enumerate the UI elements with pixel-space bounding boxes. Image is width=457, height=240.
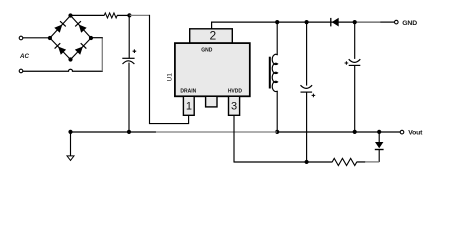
node D6 top (377, 130, 381, 134)
svg-text:1: 1 (186, 101, 192, 113)
wire mid rail centre (grey) (156, 131, 277, 133)
pin 3 box (229, 96, 240, 115)
wire bridge right node to loop (91, 37, 103, 39)
capacitor C3 top lead (306, 22, 308, 86)
label Vout (408, 130, 423, 137)
terminal Vout (400, 130, 404, 134)
capacitor C4 bottom lead (354, 65, 356, 132)
node C4 top (353, 20, 357, 24)
node bridge right (AC) (89, 36, 93, 40)
label GND (U1) (201, 47, 213, 53)
bridge diode D3 (bottom-left edge) (50, 38, 71, 60)
wire bridge+ to R1 (71, 14, 105, 16)
wire bottom rail left (234, 161, 333, 163)
label GND (402, 20, 417, 27)
pin 3 label (231, 101, 237, 113)
wire pin3 down (233, 115, 235, 162)
svg-text:2: 2 (210, 29, 217, 43)
wire top rail grey segment (356, 21, 380, 23)
label HVDD (U1) (228, 89, 243, 95)
node C1 bottom (127, 130, 131, 134)
terminal AC line 2 (19, 69, 23, 73)
capacitor C4 plus (345, 61, 349, 65)
svg-text:GND: GND (201, 47, 213, 53)
inductor core bar (269, 57, 271, 89)
node bridge bottom (-) (68, 57, 72, 61)
pin 2 label (210, 29, 217, 43)
bridge diode D1 (left-top edge) (50, 16, 71, 39)
svg-text:GND: GND (402, 20, 417, 27)
pin 1 box (183, 96, 194, 115)
wire AC1 to bridge left node (23, 37, 50, 39)
bridge diode D4 (bottom-right edge) (71, 38, 92, 60)
wire right loop vertical (grey) (101, 38, 103, 71)
diode D6 (375, 132, 384, 162)
label DRAIN (U1) (180, 89, 196, 95)
wire R1 to node A (117, 14, 130, 16)
regulator U1 tab (pin 2) (190, 29, 233, 43)
pin mid box (206, 96, 217, 107)
node C3 bottom (305, 160, 309, 164)
wire mid rail left (black) (71, 131, 157, 133)
wire node A to drain drop (grey) (129, 14, 149, 16)
node C4 bottom (353, 130, 357, 134)
node inductor bottom (275, 130, 279, 134)
svg-text:3: 3 (231, 101, 237, 113)
capacitor C1 top lead (128, 15, 130, 58)
capacitor C1 plus (133, 49, 137, 53)
bridge diode D2 (top-right edge) (71, 16, 92, 39)
node bridge top (+) (68, 13, 72, 17)
capacitor C3 plates (301, 85, 313, 92)
wire top rail to GND terminal (380, 21, 394, 23)
capacitor C4 plates (349, 59, 361, 65)
capacitor C4 top lead (354, 22, 356, 59)
resistor R1 (104, 13, 117, 18)
ground (67, 156, 74, 161)
terminal GND (395, 20, 399, 24)
node A junction (127, 13, 131, 17)
wire mid rail right (black) (277, 131, 400, 133)
resistor R2 (332, 158, 357, 165)
svg-text:Vout: Vout (408, 130, 423, 137)
wire pin2 to top rail (212, 22, 357, 29)
svg-text:AC: AC (19, 53, 29, 60)
terminal AC line 1 (19, 36, 23, 40)
diode D5 (331, 18, 339, 27)
wire AC2 with hop over bridge output (23, 69, 103, 71)
node bridge- rail (68, 130, 72, 134)
capacitor C3 plus (312, 94, 316, 98)
wire to ground (70, 132, 72, 156)
svg-text:DRAIN: DRAIN (180, 89, 196, 95)
node C3 top (305, 20, 309, 24)
capacitor C1 plates (122, 58, 134, 64)
svg-text:U1: U1 (166, 73, 173, 82)
wire drain drop to pin1 (150, 15, 189, 124)
node inductor top (275, 20, 279, 24)
regulator U1 body (175, 43, 250, 96)
node bridge left (AC) (48, 36, 52, 40)
inductor L1 (272, 22, 277, 132)
capacitor C3 bottom lead (306, 92, 308, 162)
label AC (19, 53, 29, 60)
label U1 (166, 73, 173, 82)
svg-text:HVDD: HVDD (228, 89, 243, 95)
capacitor C1 bottom lead (128, 63, 130, 133)
pin 1 label (186, 101, 192, 113)
wire bottom rail right (357, 161, 380, 163)
